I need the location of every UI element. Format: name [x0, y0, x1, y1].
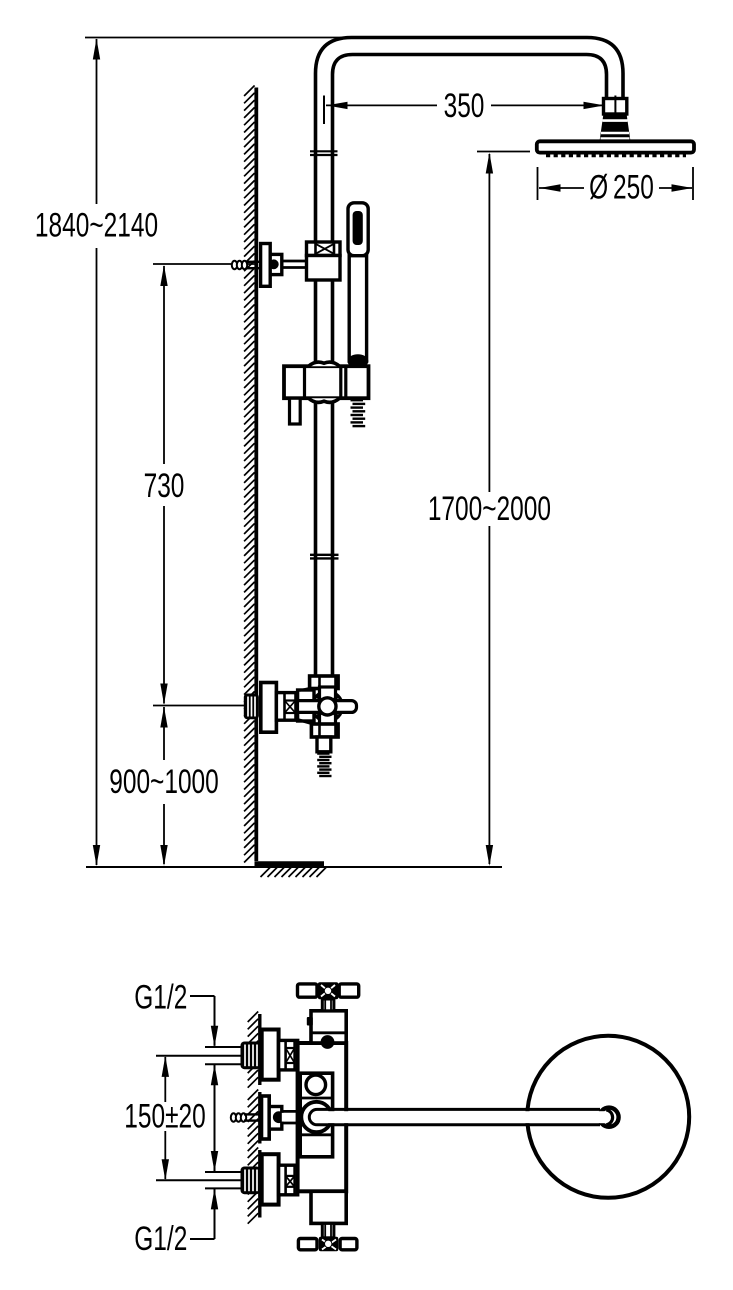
- hand shower hose spring: [351, 399, 364, 401]
- extension line at shower head level: [477, 151, 530, 153]
- valve tailpiece: [317, 737, 331, 752]
- arm end cap at head center: [606, 1110, 612, 1125]
- extension line at valve level: [153, 705, 246, 707]
- middle outlet screw shaft: [244, 1113, 260, 1115]
- svg-text:150±20: 150±20: [124, 1098, 205, 1136]
- shower head nozzles: [546, 153, 686, 158]
- wall screw shaft upper bracket: [246, 261, 259, 263]
- top inlet connector with cross-box: [279, 1040, 298, 1070]
- svg-text:G1/2: G1/2: [134, 979, 187, 1017]
- shower arm connector nut centerline: [614, 96, 616, 114]
- shower head ribbed cone connector: [600, 114, 630, 142]
- holder bottom bump under pipe: [309, 398, 340, 402]
- shower head disc: [537, 141, 694, 152]
- dimension 730 vertical line: [163, 266, 165, 464]
- valve hub outer circle: [312, 691, 342, 721]
- top stem: [322, 999, 334, 1011]
- valve top collar nut: [310, 676, 339, 689]
- slider main block: [307, 256, 341, 281]
- top cross handle center block: [318, 982, 338, 999]
- cartridge big circle arm joint: [301, 1102, 331, 1132]
- arm left end cap: [309, 1109, 317, 1124]
- dimension D250 extension lines: [537, 167, 539, 200]
- middle outlet stem to body: [282, 1113, 298, 1122]
- G1/2 top leader line: [190, 995, 215, 997]
- bottom inlet thread lines G1/2: [205, 1171, 241, 1173]
- valve hub diagonal spokes: [334, 713, 339, 718]
- bottom sub-block: [311, 1191, 346, 1223]
- top inlet flange: [262, 1030, 279, 1080]
- floor hatching: [261, 867, 328, 878]
- wall screw threads upper bracket: [232, 261, 237, 269]
- valve hub inner circle: [319, 698, 336, 715]
- dimension 350 tick on pipe centerline: [323, 96, 325, 125]
- svg-text:G1/2: G1/2: [134, 1220, 187, 1258]
- extension line top of riser: [85, 37, 350, 39]
- valve wall plate: [261, 683, 277, 733]
- extension line at wall bracket level: [153, 263, 256, 265]
- top inlet thread block dark: [241, 1042, 261, 1070]
- bracket pivot dot: [269, 260, 278, 269]
- top sub-block diverter: [311, 1011, 346, 1043]
- bottom inlet flange: [262, 1154, 279, 1204]
- dimension 900~1000 vertical line: [163, 707, 165, 760]
- slider top bar with cross-box: [307, 242, 341, 256]
- black dot at body top: [321, 1036, 334, 1049]
- dimension 1840~2140 vertical line: [96, 39, 98, 204]
- valve wall knob dark: [244, 694, 259, 720]
- svg-text:350: 350: [444, 87, 485, 125]
- middle outlet flange: [262, 1096, 270, 1139]
- wall line at top inlet: [258, 1014, 261, 1085]
- wall line: [254, 88, 258, 862]
- floor base thick line: [255, 861, 325, 866]
- svg-text:730: 730: [144, 467, 185, 505]
- bracket rod to slider: [282, 260, 307, 263]
- bottom inlet thread block dark: [241, 1167, 261, 1195]
- cartridge box: [300, 1073, 332, 1157]
- holder top bump over pipe: [309, 362, 340, 366]
- svg-text:1700~2000: 1700~2000: [428, 490, 551, 528]
- wall line at middle outlet: [258, 1092, 261, 1144]
- hand shower bottom cap: [348, 354, 369, 368]
- cartridge small circle: [306, 1075, 326, 1095]
- holder divider left: [303, 366, 306, 398]
- valve connector with cross-box: [276, 693, 297, 721]
- top inlet thread lines G1/2: [205, 1046, 241, 1048]
- wall hatch segments bottom view: [248, 1012, 259, 1088]
- svg-text:Ø 250: Ø 250: [589, 169, 654, 207]
- valve body block: [298, 690, 314, 721]
- bottom cross handle left wing: [298, 1239, 317, 1250]
- pipe union joint lower: [310, 554, 339, 556]
- dimension D250 line with arrows: [539, 187, 584, 189]
- arm to shower head plan view: [317, 1111, 606, 1123]
- dimension 350 line: [326, 104, 437, 106]
- top cross handle right wing: [339, 984, 359, 997]
- bottom cross handle right wing: [340, 1239, 357, 1250]
- dimension 1700~2000 vertical line: [488, 154, 490, 492]
- riser pipe and shower arm outer edge: [316, 38, 624, 677]
- middle outlet block: [269, 1107, 282, 1130]
- valve main body bottom view: [298, 1043, 347, 1191]
- valve cross horizontal arm channel with handle stub: [298, 701, 357, 713]
- G1/2 bottom leader line: [190, 1238, 215, 1240]
- wall line at bottom inlet: [258, 1150, 261, 1218]
- shower head big circle plan view: [527, 1036, 689, 1198]
- bottom inlet connector with cross-box: [279, 1165, 298, 1195]
- svg-text:900~1000: 900~1000: [109, 763, 219, 801]
- bottom cross handle center block: [319, 1237, 339, 1251]
- ground line: [86, 866, 502, 868]
- pipe union joint upper: [310, 150, 338, 152]
- bottom stem: [322, 1223, 334, 1237]
- middle outlet dark bump: [273, 1112, 284, 1123]
- riser pipe and shower arm inner edge: [333, 55, 607, 677]
- wall plate upper bracket: [261, 244, 271, 287]
- slider holder block: [284, 366, 369, 398]
- hand shower body: [349, 256, 366, 361]
- bracket hub plate: [270, 254, 282, 274]
- shower arm connector nut: [604, 99, 627, 115]
- valve bottom collar nut: [311, 724, 338, 737]
- holder leg: [290, 398, 301, 424]
- middle outlet screw threads: [231, 1113, 236, 1121]
- wall hatching: [244, 86, 255, 863]
- svg-text:1840~2140: 1840~2140: [35, 207, 158, 245]
- valve cross vertical arm channel: [320, 687, 336, 727]
- G1/2 dimension vertical line: [214, 996, 216, 1046]
- valve body slant bottom: [299, 720, 315, 724]
- valve hose spring: [317, 752, 329, 754]
- valve body to collar slant top: [300, 688, 312, 691]
- hand shower spray face black: [353, 211, 363, 245]
- black dot on sub-block left: [307, 1017, 313, 1026]
- dimension 150+-20 vertical line: [164, 1057, 166, 1102]
- holder divider right: [339, 366, 342, 398]
- arm end ring at head center: [599, 1108, 618, 1127]
- top cross handle left wing: [298, 984, 318, 997]
- hand shower handle head: [348, 203, 368, 256]
